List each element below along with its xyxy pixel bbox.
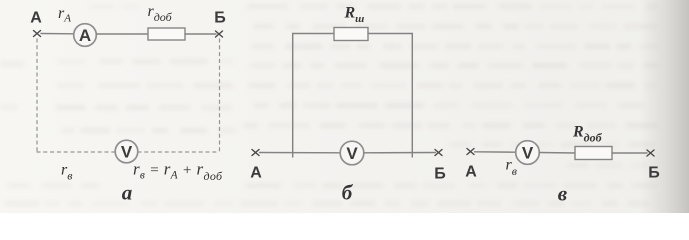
- node B (terminal): [435, 150, 442, 156]
- wire resistor to B: [612, 152, 647, 154]
- wire: dashed bottom, left of voltmeter: [37, 151, 115, 153]
- svg-text:А: А: [79, 26, 91, 45]
- node A (terminal): [34, 31, 41, 37]
- ammeter PA1: [74, 24, 97, 47]
- svg-text:V: V: [121, 143, 133, 162]
- wire: dashed bottom, right of voltmeter: [138, 151, 220, 153]
- wire resistor to B: [185, 33, 216, 35]
- resistor r_dob: [148, 28, 185, 40]
- svg-text:б: б: [342, 181, 354, 205]
- svg-text:V: V: [346, 144, 358, 163]
- voltmeter PV1 (circuit a): [115, 140, 138, 163]
- wire voltmeter to resistor: [540, 152, 576, 155]
- wire: top left to resistor: [293, 33, 334, 35]
- wire: dashed voltmeter branch, left side: [36, 39, 38, 152]
- wire ammeter to resistor: [97, 33, 149, 35]
- node A (terminal): [467, 149, 474, 155]
- svg-text:А: А: [250, 165, 262, 182]
- node B (terminal): [647, 150, 654, 156]
- wire A to voltmeter: [260, 152, 341, 154]
- wire: top resistor to right: [368, 33, 412, 35]
- node A (terminal): [252, 150, 259, 156]
- wire: right shunt riser: [411, 34, 413, 158]
- svg-text:а: а: [122, 181, 133, 205]
- svg-text:А: А: [465, 164, 477, 181]
- wire A to ammeter: [41, 33, 74, 35]
- svg-text:А: А: [30, 10, 42, 27]
- voltmeter PV3 (circuit v): [516, 141, 540, 165]
- svg-text:Б: Б: [214, 10, 226, 27]
- svg-text:в: в: [558, 181, 568, 205]
- svg-text:V: V: [522, 144, 534, 163]
- voltmeter PV2 (circuit b): [340, 141, 364, 165]
- resistor R_sh: [334, 28, 368, 41]
- svg-text:Б: Б: [434, 166, 446, 183]
- wire: dashed voltmeter branch, right side: [219, 39, 221, 152]
- wire: left shunt riser: [292, 34, 294, 158]
- resistor R_dob: [575, 147, 612, 160]
- svg-text:Б: Б: [648, 165, 660, 182]
- node B (terminal): [216, 31, 223, 37]
- wire voltmeter to B: [364, 152, 436, 154]
- wire A to voltmeter: [475, 151, 516, 153]
